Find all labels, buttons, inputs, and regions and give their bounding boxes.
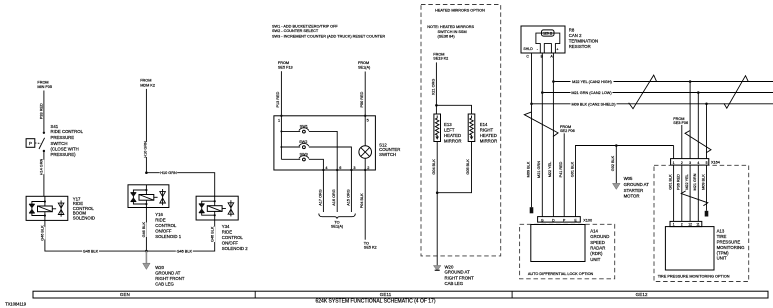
wire label G46 BLK horizontal (82, 249, 99, 254)
svg-text:2: 2 (681, 223, 683, 227)
svg-text:ON/OFF: ON/OFF (155, 228, 172, 233)
node junction pin A to bus (552, 80, 555, 83)
label AUTO DIFFERENTIAL LOCK OPTION (525, 271, 597, 276)
auto differential lock option dashed box (520, 224, 615, 278)
pin 3 S12 (350, 166, 355, 171)
svg-text:SWITCH: SWITCH (379, 152, 396, 157)
svg-text:11: 11 (696, 223, 700, 227)
svg-text:RIGHT FRONT: RIGHT FRONT (155, 276, 185, 281)
wire CAN2 HIGH bus (553, 81, 773, 83)
svg-text:M22 YEL: M22 YEL (548, 162, 552, 178)
node junction G04 (436, 191, 439, 194)
label A14 GROUND SPEED RADAR (RDR) UNIT (590, 228, 609, 262)
svg-text:G46 BLK: G46 BLK (210, 226, 214, 242)
tire pressure monitoring option dashed box (654, 165, 749, 281)
wire label G46 BLK vertical Y16 (142, 222, 147, 238)
svg-text:GROUND AT: GROUND AT (445, 270, 471, 275)
wire A15 ORG (350, 170, 352, 212)
wire label H10 GRN (143, 141, 148, 158)
svg-text:M22 YEL (CAN2 HIGH): M22 YEL (CAN2 HIGH) (572, 80, 612, 84)
svg-text:120 Ω: 120 Ω (543, 32, 553, 36)
label W20 GROUND AT RIGHT FRONT CAB LEG (445, 264, 475, 286)
label S12 COUNTER SWITCH (379, 143, 400, 158)
svg-text:FROM: FROM (358, 61, 369, 65)
svg-text:R8: R8 (569, 28, 575, 33)
node FROM SE2 F06 (560, 125, 575, 133)
svg-text:C: C (526, 54, 529, 58)
node TO SE5 K2 (364, 241, 377, 249)
svg-text:624K SYSTEM FUNCTIONAL SCHEMAT: 624K SYSTEM FUNCTIONAL SCHEMATIC (4 OF 1… (315, 298, 435, 304)
svg-text:PRESSURE: PRESSURE (51, 135, 75, 140)
svg-text:1: 1 (673, 161, 675, 165)
svg-text:HEATED: HEATED (444, 133, 461, 138)
node FROM MDM K2 (140, 79, 155, 88)
heated mirrors option dashed box (421, 5, 501, 256)
note heated mirrors switch in SSM (427, 25, 474, 38)
svg-text:RIGHT FRONT: RIGHT FRONT (445, 276, 475, 281)
label Y34 RIDE CONTROL ON/OFF SOLENOID 2 (222, 224, 248, 251)
svg-text:SE5 K2: SE5 K2 (364, 246, 377, 250)
node FROM MIN F05 (37, 81, 52, 90)
svg-text:G46 BLK: G46 BLK (83, 250, 99, 254)
solenoid Y34 (196, 196, 238, 220)
svg-text:AUTO DIFFERENTIAL LOCK OPTION: AUTO DIFFERENTIAL LOCK OPTION (528, 272, 594, 276)
svg-text:GROUND AT: GROUND AT (155, 270, 181, 275)
svg-text:(SE36 84): (SE36 84) (438, 35, 456, 39)
svg-text:1: 1 (278, 118, 280, 122)
svg-text:SPEED: SPEED (590, 240, 605, 245)
svg-text:RIDE CONTROL: RIDE CONTROL (51, 129, 84, 134)
svg-text:CONTROL: CONTROL (155, 223, 177, 228)
node junction pin C to bus (530, 103, 533, 106)
svg-text:G02 BLK: G02 BLK (611, 155, 615, 171)
harness break symbol above TPM connector (681, 191, 708, 206)
svg-text:STARTER: STARTER (624, 188, 644, 193)
svg-text:M22 YEL: M22 YEL (685, 174, 689, 190)
R8 120 ohm element (542, 30, 555, 36)
resistor R8 box (521, 26, 565, 53)
wire G46 BLK from Y34 (146, 220, 214, 251)
svg-text:CAB LEG: CAB LEG (445, 281, 464, 286)
wire G02 BLK (615, 146, 617, 184)
wire label G46 BLK vertical Y34 (210, 226, 215, 242)
wire label G46 BLK vertical (41, 225, 46, 241)
wire M21 GRN drop (697, 93, 699, 159)
svg-text:SW2 - COUNTER SELECT: SW2 - COUNTER SELECT (272, 29, 319, 33)
svg-text:TERMINATION: TERMINATION (569, 39, 598, 44)
label TIRE PRESSURE MONITORING OPTION (656, 273, 732, 278)
harness break symbol on bus right (724, 76, 749, 109)
switch box S12 (274, 116, 376, 170)
wire M22 YEL to TPM unit (689, 165, 691, 221)
TPM unit A13 (665, 227, 714, 270)
svg-text:W20: W20 (155, 265, 164, 270)
svg-text:RESISTOR: RESISTOR (569, 44, 591, 49)
svg-text:SWITCH: SWITCH (51, 141, 68, 146)
wire label H10 GRN horizontal (160, 170, 178, 175)
svg-text:X100: X100 (583, 218, 592, 222)
ground W20 mirrors (433, 266, 441, 271)
svg-text:GROUND AT: GROUND AT (624, 182, 650, 187)
wire P33 RED (43, 91, 45, 133)
wire M09 BLK from pin C (531, 53, 533, 207)
svg-text:ON/OFF: ON/OFF (222, 240, 239, 245)
node junction pin B to bus (541, 91, 544, 94)
R8 internal resistor outline (536, 33, 560, 53)
svg-text:M21 GRN: M21 GRN (693, 173, 697, 190)
node junction CAN2 HIGH to TPM (689, 80, 692, 83)
wire M21 GRN from pin B (541, 53, 543, 217)
shield termination M09 BLK (530, 207, 534, 213)
wire A16 ORG (336, 170, 338, 212)
svg-text:P04 BLK: P04 BLK (360, 193, 364, 208)
wire M09 BLK shield stub (706, 165, 708, 211)
svg-text:SW3 - INCREMENT COUNTER (ADD T: SW3 - INCREMENT COUNTER (ADD TRUCK) RESE… (272, 35, 385, 39)
wire P36 RED (681, 125, 683, 159)
wire label G46 BLK horizontal right (176, 249, 193, 254)
label E13 LEFT HEATED MIRROR (444, 122, 461, 143)
svg-text:CAB LEG: CAB LEG (155, 282, 174, 287)
svg-text:M09 BLK: M09 BLK (526, 161, 530, 177)
node FROM SE1(A) (358, 61, 371, 70)
svg-text:RADAR: RADAR (590, 246, 605, 251)
pin 4 S12 (322, 166, 327, 171)
pin 6 S12 (336, 166, 341, 171)
svg-text:P13 RED: P13 RED (276, 91, 280, 107)
svg-text:TX1084119: TX1084119 (5, 301, 27, 306)
svg-text:MONITORING: MONITORING (717, 245, 746, 250)
wire internal left bus (280, 116, 282, 160)
svg-text:X21 ORG: X21 ORG (431, 79, 435, 96)
svg-text:RIGHT: RIGHT (480, 127, 494, 132)
node FROM SE5 F13 (278, 61, 293, 69)
svg-text:2: 2 (681, 161, 683, 165)
wire G05 BLK (437, 142, 471, 193)
svg-text:MIRROR: MIRROR (444, 138, 461, 143)
ground W20 at right front cab leg (143, 251, 150, 269)
svg-text:SE1(A): SE1(A) (331, 225, 344, 229)
R8 pin labels (523, 47, 558, 51)
svg-text:P41 RED: P41 RED (559, 161, 563, 177)
solenoid Y16 (128, 185, 169, 208)
svg-text:G: G (541, 218, 544, 222)
wire M22 YEL drop (689, 82, 691, 159)
svg-text:SE19 K2: SE19 K2 (433, 57, 448, 61)
switch SW3 (281, 152, 323, 170)
wire label M09 BLK (CAN2 SHIELD) (571, 101, 617, 106)
svg-text:Y16: Y16 (155, 212, 163, 217)
svg-text:G46 BLK: G46 BLK (142, 222, 146, 238)
svg-text:GE12: GE12 (636, 292, 648, 297)
heater element E13 (434, 114, 441, 142)
svg-text:SOLENOID: SOLENOID (73, 216, 95, 221)
wire G01 BLK radar (576, 146, 674, 217)
svg-text:UNIT: UNIT (590, 257, 600, 262)
wire CAN2 LOW bus (542, 92, 773, 94)
wire M21 GRN to TPM unit (697, 165, 699, 221)
svg-text:(RDR): (RDR) (590, 251, 603, 256)
svg-text:G46 BLK: G46 BLK (177, 250, 193, 254)
svg-text:FROM: FROM (433, 52, 444, 56)
wire P50 RED (364, 72, 366, 116)
svg-text:SE3 F06: SE3 F06 (673, 121, 688, 125)
wire M22 YEL from pin A (552, 53, 554, 217)
svg-text:X164: X164 (711, 161, 720, 165)
brace to SE1(A) (319, 214, 356, 219)
heater element E14 (468, 114, 475, 142)
svg-text:MIRROR: MIRROR (480, 138, 497, 143)
connector TPM unit pins (670, 221, 702, 226)
svg-text:H10 GRN: H10 GRN (143, 141, 147, 158)
svg-text:GE11: GE11 (380, 292, 392, 297)
svg-text:SOLENOID 1: SOLENOID 1 (155, 234, 181, 239)
svg-text:TIRE: TIRE (717, 234, 727, 239)
wire G46 BLK from Y17 (45, 220, 146, 251)
node junction G46 (145, 250, 148, 253)
svg-text:5: 5 (706, 161, 708, 165)
svg-text:PRESSURE: PRESSURE (717, 240, 741, 245)
node junction X21 (435, 104, 438, 107)
svg-text:(CLOSE WITH: (CLOSE WITH (51, 147, 79, 152)
wire P13 RED (280, 71, 282, 116)
svg-text:H14 GRN: H14 GRN (40, 159, 44, 176)
wire P41 RED (563, 133, 565, 216)
svg-text:A17 ORG: A17 ORG (318, 189, 322, 206)
svg-text:TIRE PRESSURE MONITORING OPTIO: TIRE PRESSURE MONITORING OPTION (658, 274, 730, 278)
wire G04 BLK (436, 142, 438, 193)
wire A17 ORG (322, 170, 324, 212)
wire label H14 GRN (40, 159, 45, 176)
svg-text:SE1(A): SE1(A) (358, 66, 371, 70)
switch SW2 (281, 140, 351, 170)
connector X100 (538, 217, 592, 223)
svg-text:M09 BLK (CAN2 SHIELD): M09 BLK (CAN2 SHIELD) (571, 103, 616, 107)
svg-text:G05 BLK: G05 BLK (466, 159, 470, 175)
harness break symbol above X164 (685, 131, 711, 153)
svg-text:Y34: Y34 (222, 224, 230, 229)
pin 5 S12 (364, 115, 369, 123)
node junction H10 (145, 171, 148, 174)
svg-text:SOLENOID 2: SOLENOID 2 (222, 246, 248, 251)
shield termination M09 BLK TPM (705, 211, 709, 217)
wire label M22 YEL (CAN2 HIGH) (571, 79, 614, 84)
svg-text:SE2 F06: SE2 F06 (560, 129, 575, 133)
label W20 GROUND AT RIGHT FRONT CAB LEG (155, 265, 185, 287)
svg-text:HEATED MIRRORS OPTION: HEATED MIRRORS OPTION (435, 9, 485, 13)
label HEATED MIRRORS OPTION (430, 6, 490, 13)
svg-text:G01 BLK: G01 BLK (570, 161, 574, 177)
svg-text:6: 6 (339, 166, 341, 170)
svg-text:4: 4 (697, 161, 699, 165)
svg-text:A13: A13 (717, 229, 725, 234)
svg-text:RIDE: RIDE (155, 218, 165, 223)
svg-text:CONTROL: CONTROL (222, 235, 244, 240)
radar unit A14 (531, 225, 585, 262)
node FROM SE3 F06 (673, 117, 688, 125)
wire G46 BLK from Y16 (145, 208, 147, 252)
svg-text:P33 RED: P33 RED (40, 103, 44, 119)
node junction CAN2 SHIELD to TPM (705, 103, 708, 106)
svg-text:12: 12 (688, 223, 692, 227)
svg-text:A14: A14 (590, 228, 598, 233)
wire H10 GRN vertical (145, 89, 147, 173)
wire CAN2 SHIELD bus (532, 103, 773, 105)
svg-text:3: 3 (689, 161, 691, 165)
wire G01 BLK into X164 (673, 146, 675, 159)
svg-text:S41: S41 (51, 124, 59, 129)
label W05 GROUND AT STARTER MOTOR (624, 176, 650, 198)
svg-text:E14: E14 (480, 122, 488, 127)
svg-text:HEATED: HEATED (480, 133, 497, 138)
wire H10 GRN branch to Y34 (146, 173, 214, 197)
note SW1 SW2 SW3 functions (272, 25, 385, 39)
svg-text:A15 ORG: A15 ORG (346, 189, 350, 206)
svg-text:GROUND: GROUND (590, 234, 609, 239)
wire into E13 (435, 105, 437, 114)
svg-text:A16 ORG: A16 ORG (332, 189, 336, 206)
svg-text:CAN 2: CAN 2 (569, 33, 582, 38)
svg-text:3: 3 (353, 166, 355, 170)
pin 1 S12 (278, 115, 283, 123)
svg-text:G46 BLK: G46 BLK (41, 225, 45, 241)
svg-text:E13: E13 (444, 122, 452, 127)
wire branch to E14 (436, 105, 471, 114)
svg-text:P: P (29, 141, 32, 146)
connector X164 (671, 159, 720, 166)
wire P04 BLK (364, 170, 366, 240)
lamp S12 backlight (359, 116, 372, 170)
svg-text:UNIT: UNIT (717, 256, 727, 261)
svg-text:LEFT: LEFT (444, 127, 455, 132)
pressure actuator P box S41 (26, 139, 41, 148)
svg-text:G04 BLK: G04 BLK (432, 159, 436, 175)
svg-text:G01 BLK: G01 BLK (669, 174, 673, 190)
svg-text:W20: W20 (445, 264, 454, 269)
svg-text:MOTOR: MOTOR (624, 194, 640, 199)
wire G01 BLK to TPM unit (673, 165, 675, 221)
harness break symbol on bus mid (629, 75, 657, 109)
svg-text:(TPM): (TPM) (717, 250, 730, 255)
svg-text:M21 GRN (CAN2 LOW): M21 GRN (CAN2 LOW) (571, 91, 612, 95)
svg-text:FROM: FROM (278, 61, 289, 65)
border zone bar (33, 291, 768, 298)
switch S41 (39, 132, 45, 153)
svg-text:SWITCH IN SSM: SWITCH IN SSM (438, 30, 467, 34)
ground W05 at starter motor (613, 183, 621, 189)
svg-text:NOTE: HEATED MIRRORS: NOTE: HEATED MIRRORS (427, 25, 474, 29)
wire M09 BLK drop (706, 104, 708, 159)
svg-text:SW1 - ADD BUCKET/ZERO/TRIP OFF: SW1 - ADD BUCKET/ZERO/TRIP OFF (272, 25, 338, 29)
svg-text:RIDE: RIDE (222, 230, 232, 235)
svg-text:SHLD: SHLD (523, 47, 533, 51)
switch SW1 (281, 124, 337, 170)
wire P36 RED to TPM unit (681, 165, 683, 221)
node junction CAN2 LOW to TPM (697, 91, 700, 94)
label R8 CAN 2 TERMINATION RESISTOR (569, 28, 598, 50)
node FROM SE19 K2 (433, 52, 448, 60)
wire X21 ORG (435, 62, 437, 105)
svg-text:P50 RED: P50 RED (360, 91, 364, 107)
svg-text:P36 RED: P36 RED (677, 174, 681, 190)
label E14 RIGHT HEATED MIRROR (480, 122, 497, 143)
svg-text:FROM: FROM (37, 81, 48, 85)
label Y16 RIDE CONTROL ON/OFF SOLENOID 1 (155, 212, 181, 239)
svg-text:2: 2 (367, 166, 369, 170)
label S41 RIDE CONTROL PRESSURE SWITCH (51, 124, 84, 157)
svg-text:+: + (556, 47, 558, 51)
svg-text:GEN: GEN (120, 292, 130, 297)
svg-text:1: 1 (673, 223, 675, 227)
node junction G02 (615, 144, 618, 147)
svg-text:5: 5 (367, 118, 369, 122)
svg-text:M21 GRN: M21 GRN (537, 161, 541, 178)
svg-text:MDM K2: MDM K2 (140, 83, 155, 87)
wire to ground W20 (436, 193, 438, 266)
svg-text:W05: W05 (624, 176, 633, 181)
wire label M21 GRN (CAN2 LOW) (571, 90, 613, 95)
svg-text:FROM: FROM (140, 79, 151, 83)
svg-text:H10 GRN: H10 GRN (160, 171, 177, 175)
label Y17 RIDE CONTROL BOOM SOLENOID (73, 197, 95, 221)
svg-text:SE5 F13: SE5 F13 (278, 65, 293, 69)
svg-text:MIN F05: MIN F05 (37, 85, 52, 89)
pin 2 S12 (364, 166, 369, 171)
solenoid Y17 (26, 196, 68, 220)
svg-text:4: 4 (325, 166, 327, 170)
wire H14 GRN (43, 151, 45, 196)
svg-text:PRESSURE): PRESSURE) (51, 152, 77, 157)
harness break symbol on radar wires (524, 112, 558, 137)
svg-text:M09 BLK: M09 BLK (701, 174, 705, 190)
label A13 TIRE PRESSURE MONITORING (TPM) UNIT (717, 229, 746, 261)
